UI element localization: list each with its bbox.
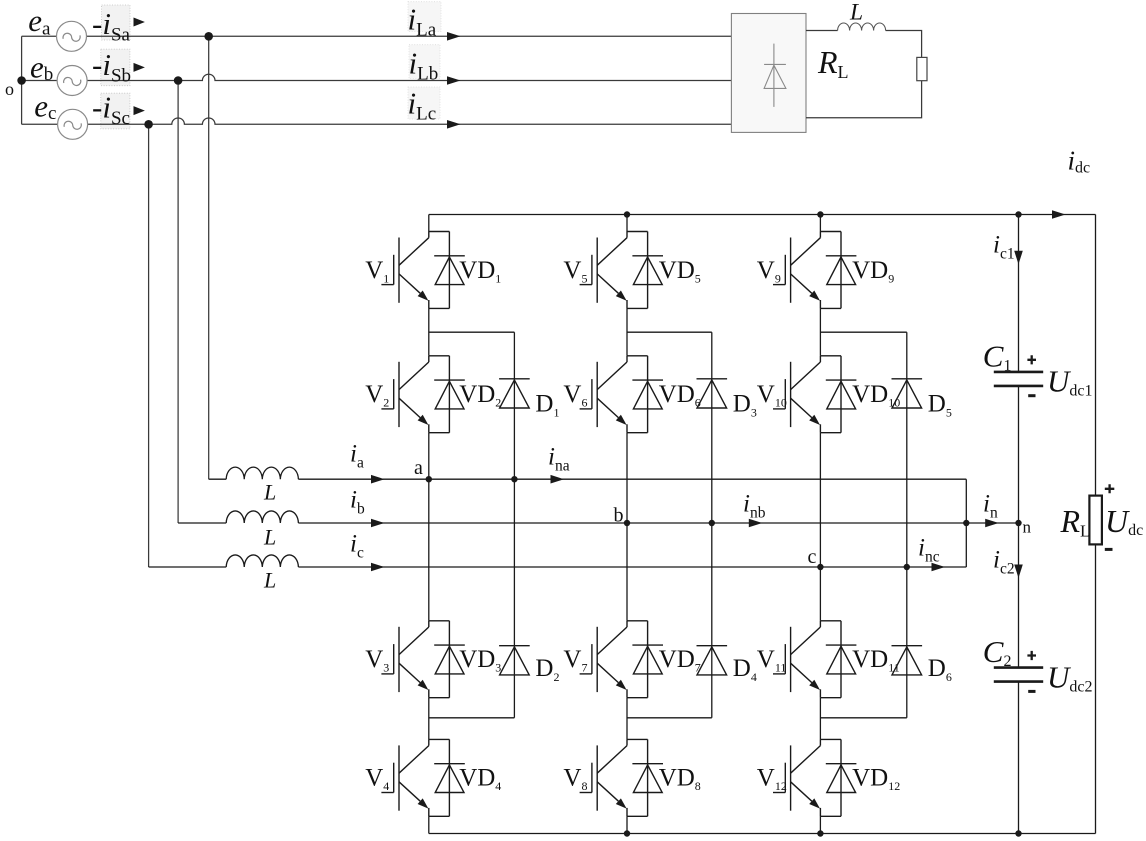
dot node c (817, 564, 823, 570)
svg-text:VD1: VD1 (459, 257, 501, 286)
load branch lower (1095, 544, 1097, 833)
plus C2 (1027, 651, 1036, 660)
capacitor C1 (994, 372, 1043, 386)
svg-text:C1: C1 (983, 339, 1012, 375)
svg-text:RL: RL (1060, 503, 1091, 541)
svg-text:in: in (983, 491, 998, 522)
minus C2 (1028, 690, 1035, 693)
inductor Lc (226, 555, 298, 567)
dot top bus b (624, 211, 630, 217)
arrow idc top bus (1052, 210, 1066, 219)
svg-text:VD8: VD8 (659, 765, 701, 794)
node o dot (17, 76, 26, 85)
svg-text:Udc: Udc (1105, 503, 1143, 539)
svg-text:V1: V1 (365, 257, 389, 286)
inductor La (226, 467, 298, 479)
svg-text:inb: inb (743, 491, 766, 522)
wire line a right (87, 35, 732, 37)
label box iLa (408, 2, 441, 32)
arrow ina (551, 475, 565, 484)
clamp branch c (820, 332, 906, 718)
igbt V4 (381, 739, 464, 816)
capacitor C2 (994, 668, 1043, 682)
arrow inb (749, 519, 763, 528)
svg-text:idc: idc (1068, 145, 1091, 176)
feed vertical phase b (177, 81, 179, 524)
wire after inductor (886, 31, 922, 58)
diode D4 (697, 646, 728, 675)
svg-text:VD6: VD6 (659, 381, 701, 410)
svg-text:V7: V7 (563, 646, 587, 675)
svg-text:VD4: VD4 (459, 765, 501, 794)
dot bottom bus b (624, 830, 630, 836)
svg-text:ia: ia (350, 441, 364, 472)
svg-text:L: L (263, 525, 276, 550)
wire line b left (22, 80, 58, 82)
wire load right bottom (806, 81, 922, 118)
svg-text:L: L (849, 0, 863, 26)
svg-text:ina: ina (548, 444, 570, 475)
ac source eb (57, 66, 87, 96)
arrow ib (371, 519, 385, 528)
node dot line b (174, 76, 183, 85)
svg-text:V4: V4 (365, 765, 389, 794)
svg-text:o: o (5, 79, 14, 99)
svg-text:a: a (414, 457, 423, 479)
capacitor branch seg2 (1018, 386, 1020, 668)
svg-text:VD9: VD9 (852, 257, 894, 286)
resistor RL load (1089, 496, 1102, 545)
label box -iSc (101, 93, 130, 129)
arrow iSc (134, 106, 145, 115)
row b wire (178, 522, 1018, 524)
diode D6 (892, 646, 923, 675)
svg-text:V3: V3 (365, 646, 389, 675)
svg-text:V5: V5 (563, 257, 587, 286)
diode D5 (892, 379, 923, 408)
svg-text:ic: ic (350, 531, 364, 562)
resistor top right (917, 57, 927, 80)
svg-text:V9: V9 (757, 257, 781, 286)
svg-text:eb: eb (30, 49, 53, 85)
igbt V8 (580, 739, 663, 816)
capacitor branch seg1 (1018, 215, 1020, 372)
arrow iLc (447, 120, 461, 129)
svg-text:L: L (263, 479, 276, 504)
label box iLc (408, 87, 440, 119)
igbt V11 (773, 621, 856, 698)
wire rectifier output top (806, 30, 838, 32)
svg-text:VD11: VD11 (852, 646, 900, 675)
arrow ia (371, 475, 385, 484)
arrow ic (371, 563, 385, 572)
svg-text:inc: inc (918, 535, 940, 566)
dot bottom bus cap (1015, 830, 1021, 836)
wire line b with hop (87, 74, 731, 80)
igbt V5 (580, 232, 663, 309)
thyristor in box (764, 44, 786, 107)
igbt V12 (773, 739, 856, 816)
svg-text:D6: D6 (928, 655, 952, 684)
dot clamp a (511, 476, 517, 482)
wire line a left (22, 35, 57, 37)
wire line c with hops (88, 118, 732, 124)
dot node b (624, 520, 630, 526)
igbt V9 (773, 232, 856, 309)
minus load (1105, 548, 1113, 551)
leg a segments (428, 215, 430, 834)
arrow iLa (447, 32, 461, 41)
svg-text:V2: V2 (365, 381, 389, 410)
label box -iSb (101, 49, 130, 86)
minus C1 (1028, 394, 1035, 397)
svg-text:D5: D5 (928, 390, 952, 419)
dot node a (426, 476, 432, 482)
svg-text:ea: ea (28, 3, 51, 40)
top dc bus (429, 214, 1096, 216)
svg-text:L: L (263, 567, 276, 592)
svg-text:V8: V8 (563, 765, 587, 794)
capacitor branch seg3 (1018, 682, 1020, 834)
left source bus (21, 36, 23, 124)
svg-text:n: n (1023, 518, 1032, 537)
svg-text:ib: ib (350, 487, 365, 518)
igbt V6 (580, 356, 663, 433)
clamp branch b (627, 332, 712, 718)
inductor L top (838, 23, 886, 31)
svg-text:ic1: ic1 (993, 232, 1015, 263)
row a wire (209, 479, 967, 523)
svg-text:D4: D4 (733, 655, 757, 684)
ac source ec (58, 109, 88, 139)
rectifier load box (731, 14, 806, 133)
label box iLb (409, 45, 440, 79)
dot junction n1 (963, 520, 969, 526)
igbt V3 (381, 621, 464, 698)
plus load (1105, 484, 1115, 493)
inductor Lb (226, 511, 298, 523)
dot node n (1015, 520, 1021, 526)
svg-text:ec: ec (34, 88, 56, 124)
svg-text:Udc1: Udc1 (1047, 364, 1093, 400)
arrow in (985, 519, 999, 528)
svg-text:C2: C2 (983, 634, 1012, 670)
arrow iSa (134, 18, 145, 27)
svg-text:Udc2: Udc2 (1047, 659, 1093, 695)
igbt V1 (381, 232, 464, 309)
leg b segments (626, 215, 628, 834)
igbt V10 (773, 356, 856, 433)
dot bottom bus c (817, 830, 823, 836)
node dot line a (204, 32, 213, 41)
svg-text:RL: RL (817, 44, 849, 82)
svg-text:D1: D1 (535, 390, 559, 419)
diode D2 (499, 646, 530, 675)
feed vertical phase c (148, 124, 150, 567)
plus C1 (1027, 355, 1036, 364)
svg-text:V12: V12 (757, 765, 787, 794)
svg-text:VD7: VD7 (659, 646, 701, 675)
feed vertical phase a (208, 36, 210, 479)
bottom dc bus (429, 833, 1096, 835)
svg-text:b: b (614, 505, 624, 527)
arrow ic1 down (1014, 251, 1023, 264)
node dot line c (144, 120, 153, 129)
arrow ic2 down (1014, 565, 1023, 579)
leg c segments (819, 215, 821, 834)
arrow inc (932, 563, 946, 572)
dot top bus cap (1015, 211, 1021, 217)
igbt V2 (381, 356, 464, 433)
svg-text:VD10: VD10 (852, 381, 900, 410)
row c wire (149, 523, 967, 567)
igbt V7 (580, 621, 663, 698)
svg-text:VD3: VD3 (459, 646, 501, 675)
svg-text:c: c (808, 546, 817, 568)
clamp branch a (429, 332, 515, 718)
svg-text:D2: D2 (535, 655, 559, 684)
label box -iSa (102, 5, 130, 40)
dot top bus c (817, 211, 823, 217)
svg-text:D3: D3 (733, 390, 757, 419)
svg-text:VD2: VD2 (459, 381, 501, 410)
diode D1 (499, 379, 530, 408)
arrow iSb (134, 63, 145, 72)
arrow iLb (447, 76, 461, 85)
diode D3 (697, 379, 728, 408)
load branch upper (1095, 215, 1097, 496)
svg-text:V11: V11 (757, 646, 787, 675)
svg-text:ic2: ic2 (993, 547, 1015, 578)
wire line c left (22, 123, 58, 125)
svg-text:VD5: VD5 (659, 257, 701, 286)
dot clamp c (904, 564, 910, 570)
ac source ea (57, 21, 87, 51)
svg-text:V6: V6 (563, 381, 587, 410)
dot clamp b (709, 520, 715, 526)
svg-text:VD12: VD12 (852, 765, 900, 794)
svg-text:V10: V10 (757, 381, 787, 410)
